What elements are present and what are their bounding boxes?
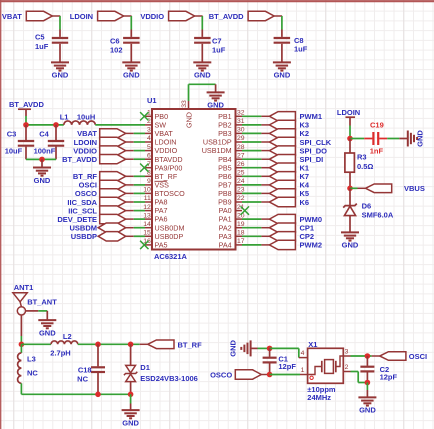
wire LDOIN to C6 xyxy=(130,16,132,30)
junction R3 VBUS xyxy=(347,186,353,192)
crystal X1 24MHz body xyxy=(308,348,344,383)
svg-text:24MHz: 24MHz xyxy=(307,393,331,402)
port K4 from U1 pin 24 xyxy=(242,184,261,186)
inductor L3 NC xyxy=(20,344,22,353)
port BT_AVDD to U1 pin 6 xyxy=(100,155,126,164)
svg-text:3: 3 xyxy=(345,348,349,355)
svg-text:C19: C19 xyxy=(370,120,384,129)
U1 pin 23 PB8 xyxy=(236,192,243,194)
svg-text:1uF: 1uF xyxy=(212,45,226,54)
port VDDIO to U1 pin 5 xyxy=(100,146,126,155)
U1 pin 27 PB4 xyxy=(236,158,243,160)
U1 pin 1 PB0 xyxy=(145,115,152,117)
svg-text:33: 33 xyxy=(181,100,188,108)
U1 pin 19 PA2 xyxy=(236,227,243,229)
svg-text:GND: GND xyxy=(359,406,376,415)
port VBUS xyxy=(358,187,366,189)
svg-text:12pF: 12pF xyxy=(278,362,296,371)
svg-text:NC: NC xyxy=(27,369,38,378)
U1 pin 29 USB1DP xyxy=(236,141,243,143)
wire VDDIO to C7 xyxy=(201,16,203,30)
U1 pin 32 PB1 xyxy=(236,115,243,117)
svg-text:9: 9 xyxy=(147,178,151,185)
svg-text:BT_RF: BT_RF xyxy=(178,340,203,349)
port PWM2 from U1 pin 17 xyxy=(242,244,261,246)
ground below C2 xyxy=(358,397,376,405)
svg-text:SMF6.0A: SMF6.0A xyxy=(362,210,394,219)
ground at pin33 xyxy=(207,92,225,100)
U1 pin 11 PA8 xyxy=(145,201,152,203)
svg-text:1uF: 1uF xyxy=(35,42,49,51)
U1 pin 14 USB0DM xyxy=(145,227,152,229)
svg-text:GND: GND xyxy=(415,130,424,147)
U1 pin 15 USB0DP xyxy=(145,235,152,237)
svg-text:100nF: 100nF xyxy=(34,146,56,155)
port PWM1 from U1 pin 32 xyxy=(242,115,261,117)
resistor R3 0.5ohm xyxy=(349,139,351,154)
port SPI_DO from U1 pin 28 xyxy=(242,150,261,152)
port OSCI xyxy=(372,355,380,357)
svg-text:10uF: 10uF xyxy=(5,146,23,155)
svg-text:C5: C5 xyxy=(35,32,45,41)
U1 pin 25 PB6 xyxy=(236,175,243,177)
port VDDIO xyxy=(169,11,195,20)
svg-text:D1: D1 xyxy=(140,363,150,372)
U1 pin 6 BTAVDD xyxy=(145,158,152,160)
svg-text:OSCI: OSCI xyxy=(409,352,427,361)
svg-text:C18: C18 xyxy=(78,365,92,374)
svg-text:C7: C7 xyxy=(212,37,222,46)
port IIC_SCL to U1 pin 12 xyxy=(100,206,126,215)
U1 pin 10 BTOSCO xyxy=(145,192,152,194)
port OSCI to U1 pin 9 xyxy=(100,180,126,189)
junction C18 bottom xyxy=(95,392,101,398)
sheet border top xyxy=(0,0,434,2)
ground left of X1 xyxy=(241,340,250,356)
wire pin33 to GND symbol xyxy=(188,84,190,101)
wire C2 to GND xyxy=(366,383,368,391)
port CP1 from U1 pin 19 xyxy=(242,227,261,229)
port BT_RF antenna side xyxy=(140,343,148,345)
svg-text:L1: L1 xyxy=(60,113,69,122)
svg-text:NC: NC xyxy=(77,374,88,383)
junction C2 bottom xyxy=(365,380,371,386)
junction C2 top xyxy=(365,353,371,359)
capacitor C18 NC xyxy=(97,344,99,366)
junction at GND tap xyxy=(39,157,45,163)
wire to VBUS port xyxy=(350,187,358,189)
svg-text:1nF: 1nF xyxy=(370,146,384,155)
junction C1 bottom xyxy=(267,372,273,378)
svg-text:OSCO: OSCO xyxy=(210,370,232,379)
svg-text:102: 102 xyxy=(110,45,123,54)
svg-text:1: 1 xyxy=(301,367,305,374)
wire bottom rail antenna xyxy=(21,393,130,395)
port SPI_CLK from U1 pin 29 xyxy=(242,141,261,143)
ground below D1 xyxy=(122,410,140,418)
svg-text:27: 27 xyxy=(237,152,245,159)
svg-text:R3: R3 xyxy=(357,153,367,162)
svg-text:GND: GND xyxy=(228,339,237,356)
svg-text:1uF: 1uF xyxy=(294,45,308,54)
no-connect X pin7 xyxy=(140,164,148,172)
port SPI_DI from U1 pin 27 xyxy=(242,158,261,160)
svg-text:VBUS: VBUS xyxy=(404,184,425,193)
wire D1 to GND xyxy=(130,394,132,403)
U1 pin 30 PB3 xyxy=(236,132,243,134)
wire to X1 pin4 xyxy=(270,347,299,349)
junction C1 top xyxy=(267,346,273,352)
port LDOIN xyxy=(98,11,124,20)
junction LDOIN C19 xyxy=(347,136,353,142)
svg-text:ESD24VB3-1006: ESD24VB3-1006 xyxy=(140,374,198,383)
capacitor C8 1uF xyxy=(274,38,291,43)
capacitor C5 1uF xyxy=(52,38,68,43)
wire X1 pin2 xyxy=(343,371,350,373)
svg-text:32: 32 xyxy=(237,110,245,117)
U1 pin 4 LDOIN xyxy=(145,141,152,143)
wire LDOIN down xyxy=(349,126,351,139)
port VBAT to U1 pin 3 xyxy=(100,129,126,138)
crystal X1 internals xyxy=(309,367,322,375)
U1 pin 2 SW xyxy=(145,124,152,126)
port OSCO to U1 pin 10 xyxy=(100,189,126,198)
U1 pin 22 PB9 xyxy=(236,201,243,203)
svg-text:L3: L3 xyxy=(27,355,36,364)
svg-text:PA4: PA4 xyxy=(219,241,232,250)
svg-text:4: 4 xyxy=(301,350,305,357)
svg-text:K6: K6 xyxy=(300,198,310,207)
port K7 from U1 pin 25 xyxy=(242,175,261,177)
wire C6 to GND xyxy=(130,44,132,62)
port CP2 from U1 pin 18 xyxy=(242,235,261,237)
ground below C5 xyxy=(51,62,69,70)
port VBAT xyxy=(26,11,52,20)
capacitor C7 1uF xyxy=(194,38,211,43)
svg-text:GND: GND xyxy=(207,101,224,110)
U1 pin 3 VBAT xyxy=(145,132,152,134)
no-connect X pin16 xyxy=(140,241,148,249)
ground below D6 xyxy=(341,232,359,240)
U1 pin 26 PB5 xyxy=(236,167,243,169)
svg-text:2.7pH: 2.7pH xyxy=(50,349,70,358)
capacitor C3 10uF xyxy=(25,125,27,140)
svg-text:BT_AVDD: BT_AVDD xyxy=(9,100,44,109)
junction at C4 xyxy=(53,122,59,128)
ground at antenna xyxy=(38,320,56,328)
port K5 from U1 pin 23 xyxy=(242,192,261,194)
svg-text:GND: GND xyxy=(194,71,211,80)
U1 pin 13 PA6 xyxy=(145,218,152,220)
U1 pin 16 PA5 xyxy=(145,244,152,246)
wire C5 to GND xyxy=(59,44,61,62)
wire C3 C4 bottom rail xyxy=(26,158,56,160)
U1 pin 20 PA1 xyxy=(236,218,243,220)
svg-text:GND: GND xyxy=(184,112,193,128)
svg-text:ANT1: ANT1 xyxy=(14,283,34,292)
zener diode D6 SMF6.0A xyxy=(349,188,351,205)
svg-text:10uH: 10uH xyxy=(77,113,95,122)
ground below C8 xyxy=(273,62,291,70)
junction antenna L2 L3 xyxy=(19,342,25,348)
ground below C3 C4 xyxy=(33,168,51,176)
U1 pin 28 USB1DM xyxy=(236,150,243,152)
port BT_AVDD xyxy=(248,11,274,20)
wire BT_AVDD rail xyxy=(26,124,64,126)
no-connect X pin21 PA0 xyxy=(241,206,249,214)
port PWM0 from U1 pin 20 xyxy=(242,218,261,220)
svg-text:GND: GND xyxy=(342,241,359,250)
svg-text:LDOIN: LDOIN xyxy=(337,108,360,117)
U1 pin 33 GND xyxy=(188,101,190,109)
op-amp U1 AC6321A body xyxy=(152,109,236,250)
TVS diode D1 ESD24VB3-1006 xyxy=(130,344,132,365)
port K2 from U1 pin 30 xyxy=(242,132,261,134)
wire VBAT to C5 xyxy=(59,16,61,30)
port USBDM to U1 pin 14 xyxy=(98,223,126,232)
U1 pin 8 BT_RF xyxy=(145,175,152,177)
svg-text:VBAT: VBAT xyxy=(2,12,22,21)
svg-text:X1: X1 xyxy=(308,340,317,349)
junction D1 top xyxy=(128,342,134,348)
wire junction to L2 xyxy=(21,343,51,345)
U1 pin 24 PB7 xyxy=(236,184,243,186)
port K6 from U1 pin 22 xyxy=(242,201,261,203)
U1 pin 17 PA4 xyxy=(236,244,243,246)
svg-text:D6: D6 xyxy=(362,202,372,211)
port IIC_SDA to U1 pin 11 xyxy=(100,197,126,206)
port BT_RF to U1 pin 8 xyxy=(100,172,126,181)
svg-text:PA5: PA5 xyxy=(155,241,168,250)
wire OSCO to X1 pin1 xyxy=(270,374,300,376)
U1 pin 9 VSS xyxy=(145,184,152,186)
port K3 from U1 pin 31 xyxy=(242,124,261,126)
svg-text:BT_ANT: BT_ANT xyxy=(27,298,57,307)
no-connect X pin1 xyxy=(140,112,148,120)
wire C19 to GND xyxy=(387,138,399,140)
capacitor C6 102 xyxy=(123,38,140,43)
wire L2 to BT_RF xyxy=(78,343,140,345)
svg-text:2: 2 xyxy=(345,364,349,371)
wire antenna down xyxy=(20,315,22,336)
capacitor C4 100nF xyxy=(55,125,57,140)
junction D1 bottom xyxy=(128,392,134,398)
svg-text:LDOIN: LDOIN xyxy=(70,12,93,21)
svg-text:GND: GND xyxy=(34,176,51,185)
capacitor C19 1nF highlighted xyxy=(364,138,372,140)
inductor L2 2.7pH xyxy=(51,341,78,344)
wire BT_AVDD down xyxy=(25,116,27,125)
svg-text:C4: C4 xyxy=(39,130,49,139)
ground below C7 xyxy=(193,62,211,70)
svg-text:5: 5 xyxy=(147,144,151,151)
svg-text:0.5Ω: 0.5Ω xyxy=(357,162,373,171)
U1 pin 12 PA7 xyxy=(145,210,152,212)
svg-text:USBDP: USBDP xyxy=(71,232,97,241)
svg-text:GND: GND xyxy=(274,71,291,80)
svg-text:AC6321A: AC6321A xyxy=(154,252,188,261)
port LDOIN to U1 pin 4 xyxy=(100,137,126,146)
ground below C6 xyxy=(122,62,140,70)
svg-text:L2: L2 xyxy=(63,332,72,341)
svg-text:GND: GND xyxy=(39,328,56,337)
svg-text:C3: C3 xyxy=(7,130,17,139)
U1 pin 5 VDDIO xyxy=(145,150,152,152)
wire X1 pin3 to OSCI xyxy=(343,355,350,357)
svg-text:GND: GND xyxy=(52,71,69,80)
wire GND to C1 xyxy=(258,347,270,349)
inductor L1 10uH xyxy=(64,121,96,125)
svg-text:31: 31 xyxy=(237,118,245,125)
svg-text:4: 4 xyxy=(147,135,151,142)
wire C8 to GND xyxy=(281,44,283,62)
U1 pin 18 PA3 xyxy=(236,235,243,237)
svg-text:GND: GND xyxy=(123,71,140,80)
capacitor C1 12pF xyxy=(269,348,271,356)
U1 pin 21 PA0 xyxy=(236,210,243,212)
junction at C3 xyxy=(23,122,29,128)
U1 pin 7 PA9/P00 xyxy=(145,167,152,169)
wire antenna to GND branch xyxy=(26,310,39,312)
junction C18 top xyxy=(95,342,101,348)
svg-text:BT_AVDD: BT_AVDD xyxy=(62,155,97,164)
wire BT_AVDD to C8 xyxy=(281,16,283,30)
wire C7 to GND xyxy=(201,44,203,62)
sheet border left xyxy=(0,0,2,429)
ground right of C19 xyxy=(408,131,417,147)
svg-text:3: 3 xyxy=(147,127,151,134)
wire to C19 xyxy=(350,138,364,140)
wire L1 to pin2 xyxy=(95,124,145,126)
port DEV_DETE to U1 pin 13 xyxy=(100,214,126,223)
svg-text:GND: GND xyxy=(122,418,139,427)
svg-text:U1: U1 xyxy=(147,96,157,105)
svg-text:6: 6 xyxy=(147,152,151,159)
svg-text:C6: C6 xyxy=(110,37,120,46)
port K1 from U1 pin 26 xyxy=(242,167,261,169)
svg-text:12pF: 12pF xyxy=(380,372,398,381)
capacitor C2 12pF xyxy=(366,356,368,366)
port USBDP to U1 pin 15 xyxy=(98,232,126,241)
svg-text:BT_AVDD: BT_AVDD xyxy=(209,12,244,21)
U1 pin 31 PB2 xyxy=(236,124,243,126)
svg-text:PWM2: PWM2 xyxy=(300,241,323,250)
svg-text:VDDIO: VDDIO xyxy=(140,12,164,21)
